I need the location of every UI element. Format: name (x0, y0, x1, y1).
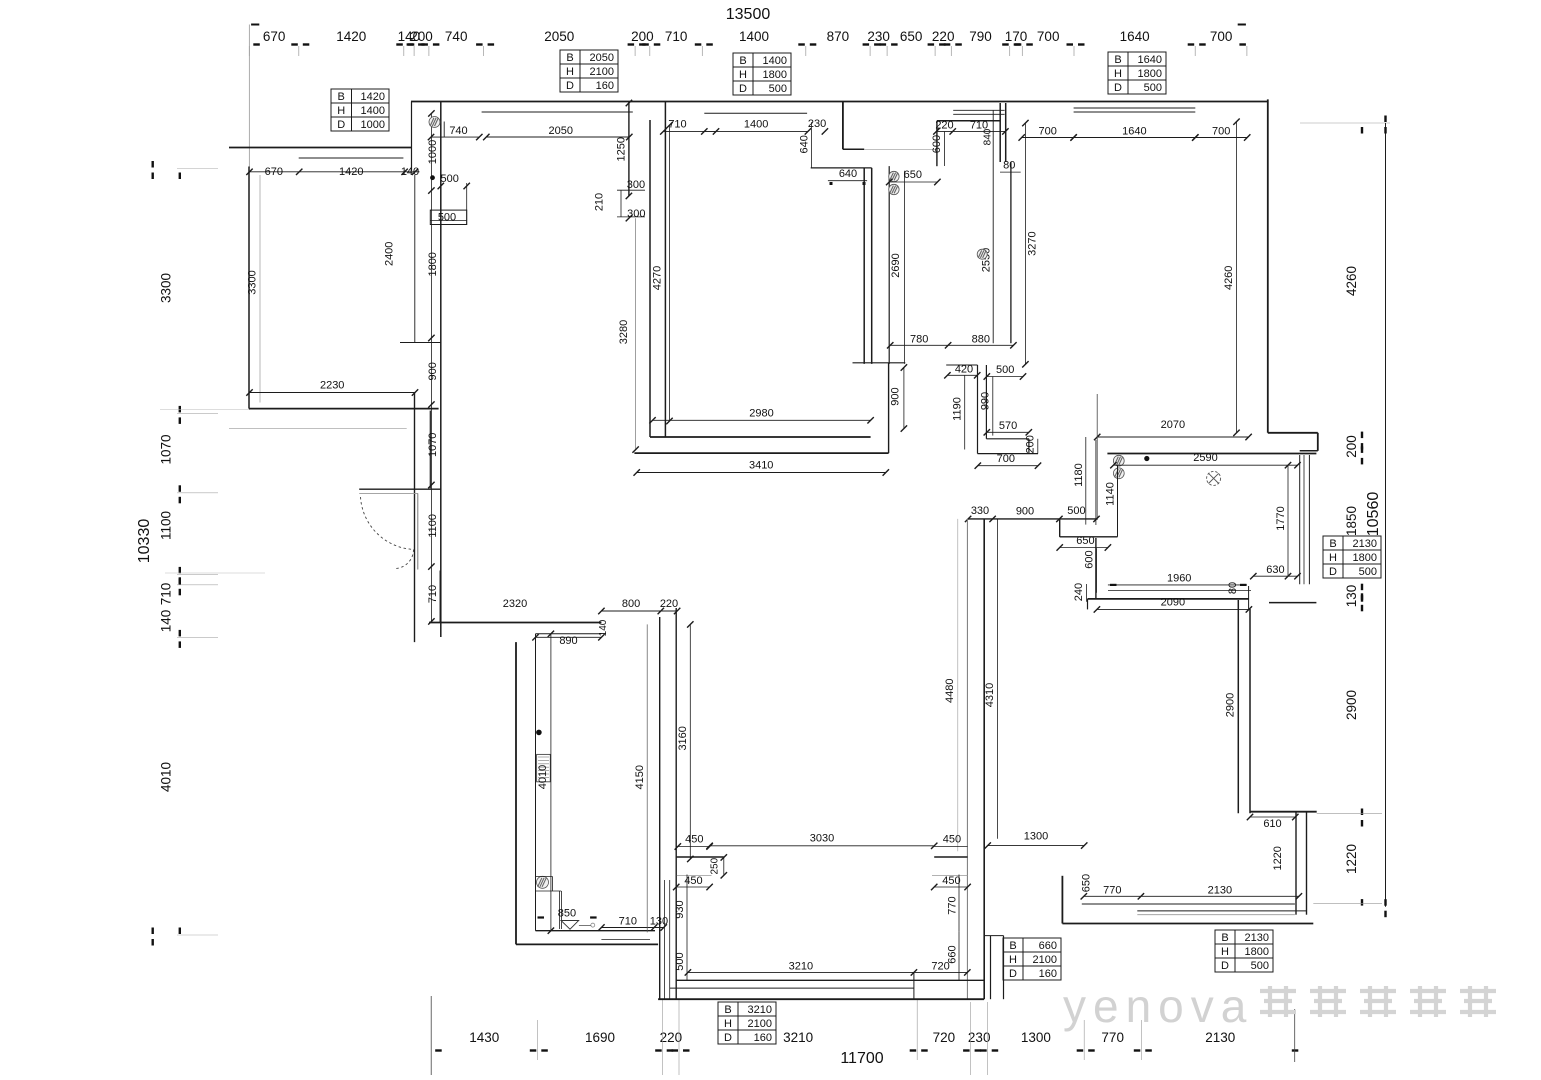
svg-text:740: 740 (449, 125, 467, 137)
svg-text:710: 710 (619, 916, 637, 928)
svg-text:630: 630 (1266, 564, 1284, 576)
dim 770 right (958, 875, 960, 932)
table B2130 H1800 D500 right (1323, 536, 1381, 578)
svg-text:3300: 3300 (247, 270, 259, 294)
dim 200 small (1037, 439, 1039, 454)
dim 770 2130 bottom room (1084, 895, 1299, 897)
svg-text:1960: 1960 (1167, 572, 1191, 584)
kitchen top wall (1107, 453, 1316, 455)
dim 4310 (997, 519, 999, 839)
corridor walls vertical (659, 617, 661, 999)
svg-text:770: 770 (1103, 884, 1121, 896)
svg-text:1070: 1070 (427, 433, 439, 457)
svg-text:500: 500 (769, 83, 787, 95)
svg-text:800: 800 (622, 598, 640, 610)
master bath dim 220 710 (936, 130, 1005, 132)
svg-text:H: H (566, 66, 574, 78)
svg-text:3160: 3160 (677, 726, 689, 750)
dim 2230 (250, 392, 416, 394)
svg-text:1640: 1640 (1138, 54, 1162, 66)
kitchen left counter line (1117, 465, 1119, 537)
svg-text:200: 200 (1025, 435, 1037, 453)
svg-text:500: 500 (674, 952, 686, 970)
top chain extension lines (248, 46, 250, 56)
svg-text:4480: 4480 (944, 678, 956, 702)
top dimension chain (253, 43, 259, 45)
svg-text:1430: 1430 (469, 1030, 499, 1045)
svg-text:500: 500 (996, 364, 1014, 376)
svg-text:770: 770 (1101, 1030, 1124, 1045)
svg-text:200: 200 (631, 29, 654, 44)
svg-text:4310: 4310 (984, 683, 996, 707)
dim 240 (1086, 584, 1088, 602)
svg-text:140: 140 (598, 619, 609, 636)
svg-text:1100: 1100 (427, 514, 439, 538)
left dimension chain (179, 173, 181, 180)
hall wall segment (429, 411, 431, 489)
svg-text:600: 600 (931, 135, 943, 153)
svg-text:610: 610 (1263, 818, 1281, 830)
svg-text:3280: 3280 (618, 320, 630, 344)
svg-text:720: 720 (931, 960, 949, 972)
dim 1180 (1085, 437, 1087, 525)
svg-text:500: 500 (438, 212, 456, 224)
svg-text:D: D (1114, 82, 1122, 94)
svg-text:2320: 2320 (503, 598, 527, 610)
dim 500 with dot (430, 175, 435, 180)
dim 640 vertical (810, 122, 812, 168)
master bedroom bottom wall (853, 362, 906, 364)
door triangle (561, 921, 579, 930)
dim 3270 (1024, 123, 1026, 364)
left room left wall (248, 167, 250, 409)
svg-text:900: 900 (890, 387, 902, 405)
svg-text:D: D (337, 119, 345, 131)
dim 640 door (828, 180, 867, 182)
svg-text:450: 450 (943, 834, 961, 846)
svg-text:1190: 1190 (951, 397, 963, 421)
bedroom door head (811, 167, 872, 169)
svg-text:1800: 1800 (1245, 946, 1269, 958)
svg-text:D: D (724, 1032, 732, 1044)
top wall window inner lines 790 (953, 109, 1004, 111)
svg-text:1420: 1420 (361, 91, 385, 103)
niche 500 (430, 210, 466, 224)
bedroom2 right walls (1295, 812, 1297, 915)
dim 600 bath (944, 132, 946, 166)
right wall step (1268, 432, 1318, 434)
svg-text:890: 890 (559, 635, 577, 647)
svg-text:770: 770 (946, 896, 958, 914)
svg-text:840: 840 (982, 128, 993, 145)
bedroom2 south wall (1250, 811, 1317, 813)
dim 4270 (669, 125, 671, 421)
svg-text:11700: 11700 (840, 1050, 883, 1067)
svg-text:13500: 13500 (726, 6, 771, 23)
master bath top wall (937, 120, 1000, 122)
dim 780 880 (890, 344, 1013, 346)
top main wall (411, 101, 1268, 103)
svg-text:1400: 1400 (763, 55, 787, 67)
svg-text:2590: 2590 (1193, 452, 1217, 464)
svg-text:250: 250 (709, 857, 720, 874)
dim 2050 interior (486, 136, 629, 138)
svg-text:700: 700 (1212, 126, 1230, 138)
dim 1770 (1287, 465, 1289, 576)
svg-text:710: 710 (668, 119, 686, 131)
svg-text:300: 300 (627, 208, 645, 220)
svg-text:500: 500 (1067, 505, 1085, 517)
dim 930 (686, 875, 688, 944)
table B2130 H1800 D500 bottom (1215, 930, 1273, 972)
svg-text:1800: 1800 (1353, 552, 1377, 564)
svg-text:600: 600 (1083, 550, 1095, 568)
svg-text:1400: 1400 (361, 105, 385, 117)
dim 2090 (1097, 608, 1249, 610)
fixture flower (977, 249, 987, 259)
svg-text:1070: 1070 (159, 434, 174, 464)
svg-text:4150: 4150 (634, 765, 646, 789)
svg-text:650: 650 (904, 169, 922, 181)
svg-text:500: 500 (1251, 960, 1269, 972)
table B1420 H1400 D1000 (331, 89, 389, 131)
top wall window inner line 2050 (482, 111, 633, 113)
svg-text:10560: 10560 (1365, 492, 1382, 537)
left room bottom wall (249, 408, 439, 410)
svg-text:650: 650 (1076, 535, 1094, 547)
master bedroom entry step (842, 102, 844, 150)
left room top dim 670 1420 140 (250, 171, 420, 173)
bedroom2 dividing wall (1237, 600, 1239, 813)
top wall window inner line 1400 (704, 112, 807, 114)
svg-text:2130: 2130 (1208, 884, 1232, 896)
fixture hatched circle hall top (429, 117, 440, 128)
dim 3280 (635, 218, 637, 449)
right outer wall (1267, 99, 1269, 432)
svg-text:700: 700 (997, 453, 1015, 465)
svg-text:2230: 2230 (320, 380, 344, 392)
svg-text:2050: 2050 (590, 52, 614, 64)
dim 1300 (988, 845, 1084, 847)
table B2050 H2100 D160 (560, 50, 618, 92)
svg-text:500: 500 (1144, 82, 1162, 94)
svg-text:1800: 1800 (1138, 68, 1162, 80)
svg-text:900: 900 (427, 362, 439, 380)
table B1640 H1800 D500 (1108, 52, 1166, 94)
svg-text:D: D (1221, 960, 1229, 972)
dim 3410 (637, 472, 886, 474)
partition lines 2550 (992, 110, 994, 343)
svg-text:yenova: yenova (1063, 980, 1253, 1032)
svg-text:670: 670 (265, 166, 283, 178)
svg-text:130: 130 (1344, 585, 1359, 608)
entry door lintel (359, 488, 441, 490)
entry door swing arc (361, 497, 413, 549)
svg-text:3210: 3210 (783, 1030, 813, 1045)
svg-text:900: 900 (1016, 506, 1034, 518)
svg-text:720: 720 (933, 1030, 956, 1045)
fixture hatched circles master closet (889, 171, 899, 181)
svg-text:710: 710 (427, 585, 439, 603)
dim 700 interior right (1022, 137, 1074, 139)
svg-text:2100: 2100 (590, 66, 614, 78)
corridor wall and dims 330 900 500 (968, 518, 1096, 520)
svg-text:2900: 2900 (1344, 690, 1359, 720)
dim 740 interior (431, 136, 479, 138)
svg-text:H: H (1009, 954, 1017, 966)
svg-text:1180: 1180 (1073, 463, 1085, 487)
svg-text:220: 220 (935, 119, 953, 131)
left room inner dim 3300 (259, 175, 261, 403)
bottom rooms dividing wall (966, 519, 968, 999)
svg-text:330: 330 (971, 505, 989, 517)
svg-text:640: 640 (839, 168, 857, 180)
svg-text:B: B (1221, 932, 1228, 944)
svg-text:B: B (1114, 54, 1121, 66)
table B1400 H1800 D500 (733, 53, 791, 95)
bottom chain extension lines (430, 996, 432, 1075)
svg-text:570: 570 (999, 420, 1017, 432)
svg-text:B: B (724, 1004, 731, 1016)
svg-text:220: 220 (660, 598, 678, 610)
svg-text:640: 640 (799, 135, 811, 153)
svg-text:140: 140 (159, 610, 174, 633)
svg-text:160: 160 (596, 80, 614, 92)
table B660 H2100 D160 (1003, 938, 1061, 980)
svg-text:B: B (1329, 538, 1336, 550)
svg-text:2130: 2130 (1353, 538, 1377, 550)
overall right dimension 10560 (1385, 123, 1387, 907)
svg-text:2050: 2050 (549, 125, 573, 137)
right inner dimension chain (1361, 127, 1363, 134)
svg-text:2100: 2100 (1033, 954, 1057, 966)
dim 710 top interior (663, 130, 716, 132)
living-hall wall (649, 120, 651, 437)
svg-text:450: 450 (942, 875, 960, 887)
bottom-right room bottom (1061, 876, 1063, 924)
svg-text:1250: 1250 (615, 137, 627, 161)
svg-text:D: D (566, 80, 574, 92)
svg-text:210: 210 (593, 193, 605, 211)
ceiling fixture circle (1207, 471, 1221, 485)
svg-text:650: 650 (900, 29, 923, 44)
svg-text:670: 670 (263, 29, 286, 44)
hall left wall (414, 393, 416, 643)
svg-text:240: 240 (1073, 583, 1085, 601)
bottom-center room top wall right segment (934, 856, 967, 858)
dim 630 kitchen (1253, 575, 1297, 577)
svg-text:1140: 1140 (1104, 482, 1116, 506)
svg-text:2090: 2090 (1161, 596, 1185, 608)
dim 1640 interior (1074, 137, 1196, 139)
kitchen dim 2070 (1097, 436, 1248, 438)
dim 800 220 (601, 610, 677, 612)
svg-text:200: 200 (410, 29, 433, 44)
svg-text:2400: 2400 (384, 242, 396, 266)
kitchen west edge extension (1095, 440, 1097, 525)
svg-text:700: 700 (1210, 29, 1233, 44)
svg-text:1000: 1000 (361, 119, 385, 131)
kitchen entry step (1059, 519, 1061, 537)
svg-text:140: 140 (401, 166, 419, 178)
balcony top wall (229, 147, 411, 149)
svg-text:1300: 1300 (1021, 1030, 1051, 1045)
bedroom/bath wall pair (999, 103, 1001, 162)
dim 610 (1250, 816, 1295, 818)
dim 3030 row (711, 845, 934, 847)
dim 4480 (957, 519, 959, 851)
svg-text:170: 170 (1005, 29, 1028, 44)
dim 2400 (414, 175, 416, 343)
svg-text:160: 160 (754, 1032, 772, 1044)
wall connector top-left (411, 102, 413, 172)
svg-text:3030: 3030 (810, 833, 834, 845)
living room west wall dim 1250 (628, 102, 630, 196)
svg-text:870: 870 (827, 29, 850, 44)
dim 450 right lower (934, 886, 967, 888)
dim 2690 (903, 171, 905, 364)
right chain extension lines (1300, 122, 1390, 124)
svg-text:B: B (739, 55, 746, 67)
hall right wall (440, 102, 442, 638)
svg-text:1300: 1300 (1024, 831, 1048, 843)
svg-text:230: 230 (968, 1030, 991, 1045)
kitchen bottom wall (1088, 598, 1249, 600)
svg-text:1800: 1800 (763, 69, 787, 81)
svg-text:2130: 2130 (1245, 932, 1269, 944)
svg-text:710: 710 (665, 29, 688, 44)
svg-text:880: 880 (972, 333, 990, 345)
svg-text:700: 700 (1039, 126, 1057, 138)
svg-text:D: D (739, 83, 747, 95)
master bedroom west wall (863, 168, 865, 364)
svg-text:1400: 1400 (739, 29, 769, 44)
svg-text:B: B (338, 91, 345, 103)
dim 1960 (1108, 584, 1247, 586)
svg-text:230: 230 (867, 29, 890, 44)
hall bottom wall 2320 (439, 571, 441, 624)
svg-text:2100: 2100 (748, 1018, 772, 1030)
svg-text:1770: 1770 (1275, 506, 1287, 530)
svg-text:D: D (1329, 566, 1337, 578)
svg-text:1420: 1420 (339, 166, 363, 178)
svg-text:1100: 1100 (159, 511, 174, 540)
svg-text:H: H (337, 105, 345, 117)
dim 990 (992, 377, 994, 436)
dim 900 small (903, 368, 905, 429)
bottom-left room counter (536, 876, 553, 878)
svg-text:740: 740 (445, 29, 468, 44)
svg-text:D: D (1009, 968, 1017, 980)
master bedroom closet line (888, 166, 890, 364)
dim 4150 (646, 624, 648, 932)
svg-text:780: 780 (910, 333, 928, 345)
svg-text:4010: 4010 (159, 762, 174, 792)
svg-text:660: 660 (1039, 940, 1057, 952)
svg-text:990: 990 (979, 392, 991, 410)
svg-text:710: 710 (159, 583, 174, 606)
svg-text:2050: 2050 (544, 29, 574, 44)
svg-text:700: 700 (1037, 29, 1060, 44)
fixture dot bottom-left (536, 730, 542, 736)
svg-text:4010: 4010 (537, 765, 549, 789)
svg-text:160: 160 (1039, 968, 1057, 980)
fixture hatched circle bottom-left (537, 876, 549, 888)
dim 3210 720 (688, 971, 967, 973)
svg-text:220: 220 (932, 29, 955, 44)
svg-text:420: 420 (955, 364, 973, 376)
svg-text:3210: 3210 (789, 960, 813, 972)
svg-text:850: 850 (558, 908, 576, 920)
svg-text:H: H (1329, 552, 1337, 564)
bottom dimension chain (435, 1049, 442, 1051)
svg-text:1220: 1220 (1272, 846, 1284, 870)
dim 450 right upper line (934, 846, 967, 848)
dim 2980 (653, 419, 871, 421)
svg-text:4270: 4270 (651, 266, 663, 290)
top wall window inner lines 1640 (1074, 107, 1196, 109)
bottom-left room walls (515, 642, 517, 944)
svg-text:2980: 2980 (749, 407, 773, 419)
dim 4260 inner (1236, 122, 1238, 433)
bath2 walls (977, 365, 979, 454)
dim 1400 interior (704, 130, 808, 132)
svg-text:H: H (1114, 68, 1122, 80)
svg-text:230: 230 (808, 118, 826, 130)
step to bedroom2 (990, 936, 992, 1000)
bottom window band (676, 979, 984, 981)
svg-text:4260: 4260 (1223, 266, 1235, 290)
table B3210 H2100 D160 (718, 1002, 776, 1044)
fixture panel (537, 754, 551, 781)
svg-text:1000: 1000 (427, 140, 439, 164)
svg-text:1800: 1800 (427, 252, 439, 276)
svg-text:500: 500 (1359, 566, 1377, 578)
svg-text:130: 130 (650, 916, 668, 928)
entry door leaf (417, 493, 419, 569)
dim 890 (536, 636, 602, 638)
left chain extension lines (160, 409, 250, 411)
left overall chain marks (152, 161, 154, 168)
svg-text:80: 80 (1003, 160, 1015, 172)
kitchen fixtures (1113, 455, 1124, 466)
svg-text:1400: 1400 (744, 118, 768, 130)
svg-text:1220: 1220 (1344, 844, 1359, 874)
hall interior dim chain 1000-1800-900-1070-1100-710 (430, 113, 432, 621)
kitchen right window lines (1299, 455, 1301, 584)
dim 4010 inner (550, 634, 552, 931)
svg-text:3410: 3410 (749, 460, 773, 472)
dim 3160 (689, 624, 691, 859)
svg-text:B: B (566, 52, 573, 64)
svg-text:3300: 3300 (159, 273, 174, 303)
svg-text:2690: 2690 (890, 253, 902, 277)
svg-text:1420: 1420 (336, 29, 366, 44)
svg-text:2070: 2070 (1161, 419, 1185, 431)
svg-text:H: H (1221, 946, 1229, 958)
dim 1190 (964, 375, 966, 449)
wall stub near hatch (443, 122, 445, 138)
svg-text:3270: 3270 (1026, 231, 1038, 255)
svg-text:1850: 1850 (1344, 506, 1359, 536)
dim 450 left lower (676, 886, 709, 888)
svg-text:10330: 10330 (136, 519, 153, 564)
svg-text:790: 790 (969, 29, 992, 44)
svg-text:650: 650 (1081, 874, 1093, 892)
svg-text:450: 450 (685, 834, 703, 846)
living room bottom walls (650, 436, 871, 438)
svg-text:H: H (739, 69, 747, 81)
